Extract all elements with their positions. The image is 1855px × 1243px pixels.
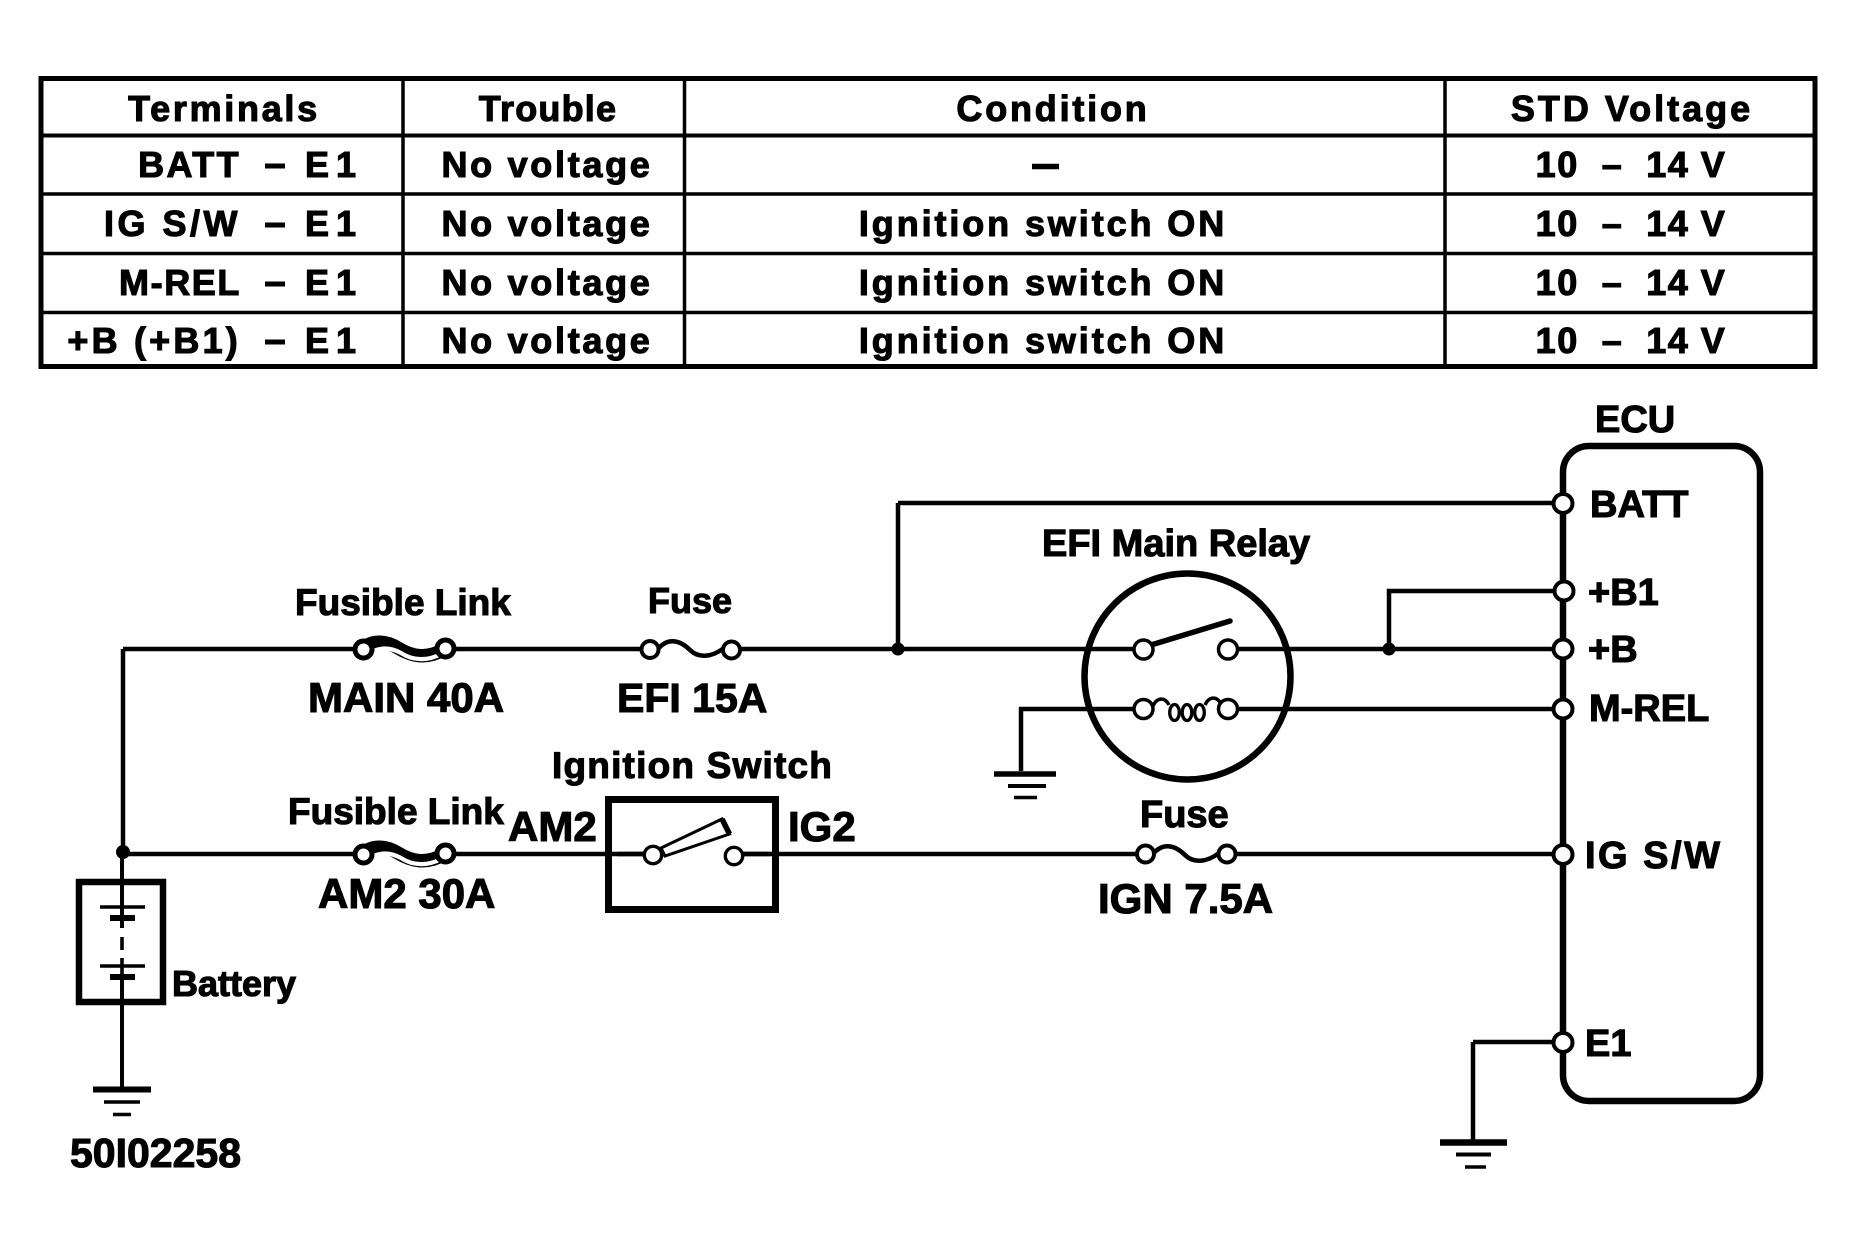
- svg-text:AM2: AM2: [508, 803, 597, 850]
- svg-text:EFI 15A: EFI 15A: [617, 675, 767, 721]
- svg-text:10 – 14 V: 10 – 14 V: [1536, 144, 1727, 185]
- svg-text:E1: E1: [1585, 1023, 1631, 1065]
- svg-text:IG S/W: IG S/W: [1585, 835, 1722, 877]
- svg-text:No voltage: No voltage: [441, 144, 652, 185]
- svg-text:+B1: +B1: [1588, 572, 1659, 614]
- svg-text:E1: E1: [305, 144, 363, 185]
- svg-text:Ignition switch ON: Ignition switch ON: [859, 262, 1227, 303]
- svg-text:ECU: ECU: [1595, 399, 1675, 441]
- svg-text:Fusible Link: Fusible Link: [288, 791, 504, 832]
- svg-text:Fuse: Fuse: [1140, 794, 1229, 836]
- svg-text:E1: E1: [305, 320, 363, 361]
- svg-text:E1: E1: [305, 262, 363, 303]
- svg-text:10 – 14 V: 10 – 14 V: [1536, 262, 1727, 303]
- svg-text:+B: +B: [1588, 629, 1638, 671]
- svg-text:AM2 30A: AM2 30A: [318, 870, 495, 917]
- svg-text:Fuse: Fuse: [648, 580, 732, 621]
- svg-text:Ignition switch ON: Ignition switch ON: [859, 203, 1227, 244]
- svg-text:No voltage: No voltage: [441, 203, 652, 244]
- svg-text:MAIN 40A: MAIN 40A: [308, 674, 504, 721]
- svg-text:+B (+B1): +B (+B1): [67, 320, 241, 361]
- svg-text:No voltage: No voltage: [441, 262, 652, 303]
- svg-text:50I02258: 50I02258: [70, 1130, 241, 1176]
- svg-text:IG S/W: IG S/W: [104, 203, 241, 244]
- svg-text:10 – 14 V: 10 – 14 V: [1536, 203, 1727, 244]
- svg-text:10 – 14 V: 10 – 14 V: [1536, 320, 1727, 361]
- svg-text:M-REL: M-REL: [1589, 688, 1709, 730]
- svg-text:Trouble: Trouble: [479, 88, 617, 129]
- svg-text:Condition: Condition: [956, 88, 1149, 129]
- svg-text:Battery: Battery: [172, 963, 296, 1004]
- svg-text:Ignition Switch: Ignition Switch: [552, 745, 833, 786]
- svg-text:Terminals: Terminals: [128, 88, 320, 129]
- svg-text:Fusible Link: Fusible Link: [295, 582, 511, 623]
- svg-text:EFI Main Relay: EFI Main Relay: [1042, 523, 1310, 565]
- svg-text:Ignition switch ON: Ignition switch ON: [859, 320, 1227, 361]
- svg-text:M-REL: M-REL: [119, 262, 241, 303]
- svg-text:IGN 7.5A: IGN 7.5A: [1098, 875, 1273, 922]
- svg-text:BATT: BATT: [138, 144, 241, 185]
- svg-text:BATT: BATT: [1590, 484, 1689, 526]
- svg-text:E1: E1: [305, 203, 363, 244]
- svg-text:IG2: IG2: [788, 803, 856, 850]
- svg-text:No voltage: No voltage: [441, 320, 652, 361]
- svg-text:STD Voltage: STD Voltage: [1511, 88, 1753, 129]
